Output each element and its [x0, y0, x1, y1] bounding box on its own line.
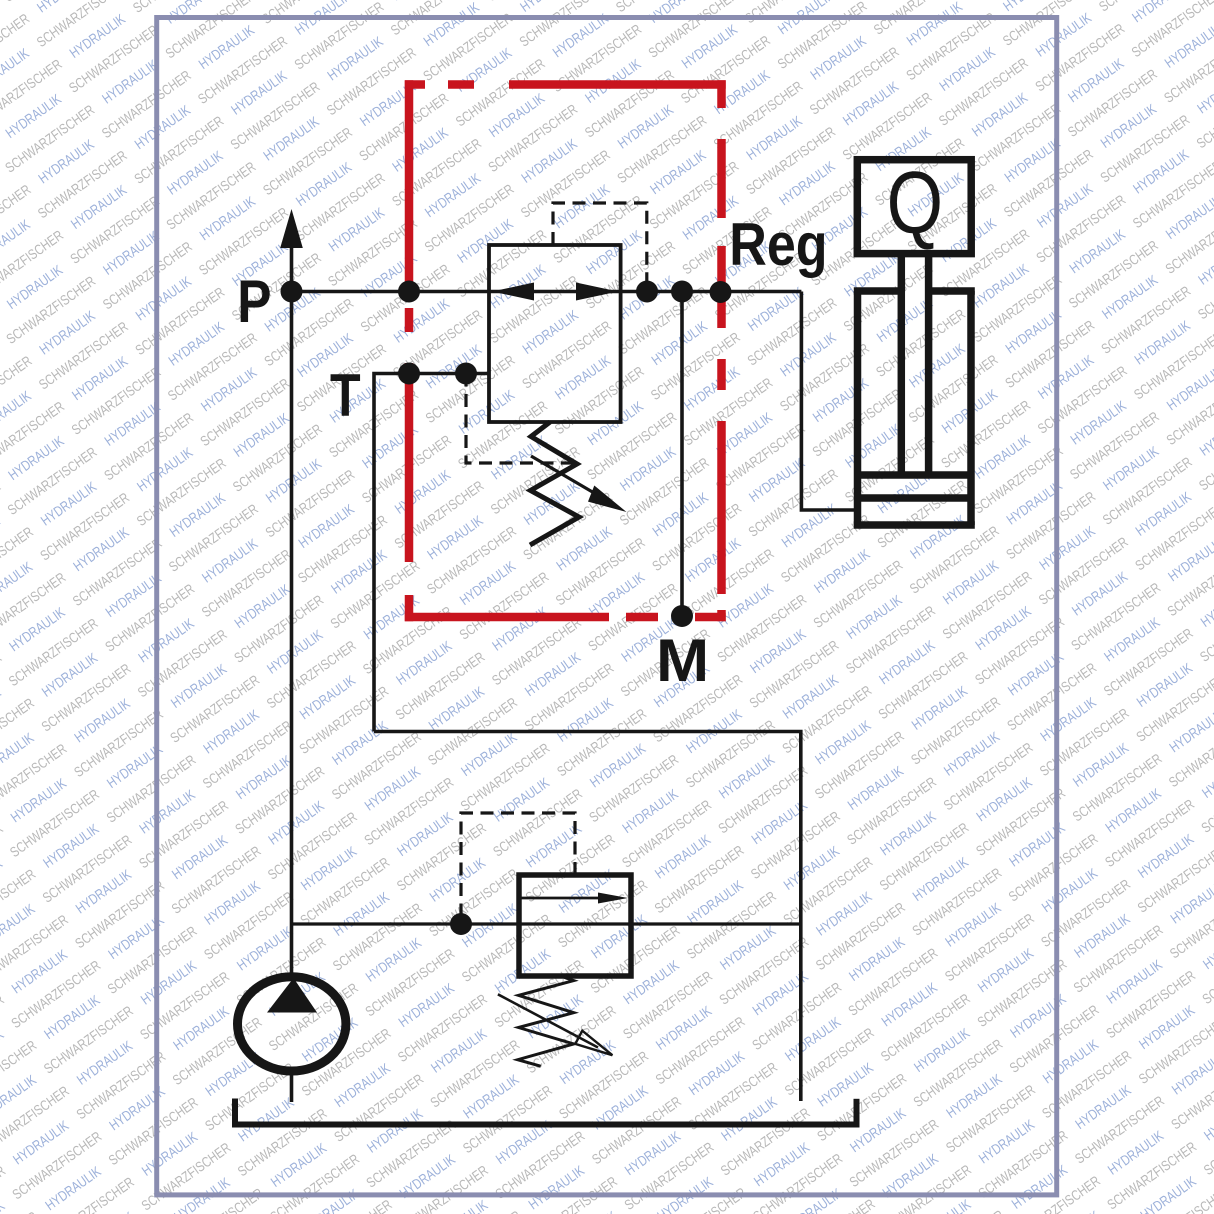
cylinder piston lines — [858, 471, 972, 479]
cylinder bottom — [854, 521, 975, 529]
flow meter Q box — [857, 160, 971, 254]
valve U1 left arrowhead — [492, 283, 534, 301]
red manifold boundary left edge — [405, 80, 414, 283]
valve U1 spring adjust arrow — [531, 456, 601, 497]
cylinder rod lines — [898, 254, 906, 475]
pump P1 triangle — [267, 978, 317, 1013]
relief valve V2 arrow — [521, 897, 604, 900]
wire T line — [374, 374, 489, 732]
relief valve V2 spring — [518, 976, 574, 1066]
valve U1 right arrowhead — [576, 283, 618, 301]
relief valve V2 spring adjust arrow — [498, 994, 598, 1047]
pilot line dashed left (T tap to spring) — [466, 374, 576, 464]
wire Reg to cylinder — [801, 292, 857, 511]
junction dot M — [671, 605, 693, 627]
wire main pressure line P to cylinder branch — [292, 290, 802, 294]
junction dot T pilot tap — [455, 363, 477, 385]
relief valve V2 body — [519, 875, 631, 976]
tank symbol — [232, 1122, 859, 1128]
junction dot P — [281, 281, 303, 303]
cylinder walls — [854, 291, 862, 525]
valve U1 flow regulator body — [489, 245, 621, 422]
wire M branch vertical — [680, 292, 684, 617]
pump P1 circle — [238, 977, 346, 1071]
wire P vertical (pump to P arrow) — [290, 240, 294, 973]
junction dot T on red boundary — [398, 363, 420, 385]
red manifold boundary right edge — [717, 80, 726, 108]
svg-text:P: P — [237, 268, 271, 335]
svg-text:Reg: Reg — [729, 211, 827, 278]
junction dot relief pilot — [450, 913, 472, 935]
border frame — [157, 18, 1057, 1195]
junction dot M branch — [671, 281, 693, 303]
arrow P up — [280, 209, 303, 248]
svg-text:Q: Q — [887, 153, 944, 252]
svg-text:T: T — [330, 362, 361, 429]
wire pump outlet to tank — [290, 1071, 294, 1102]
junction dot red crossing P line — [398, 281, 420, 303]
red manifold boundary top edge — [405, 80, 425, 89]
svg-text:M: M — [656, 627, 709, 694]
cylinder top edges — [854, 287, 902, 295]
pilot line dashed top (valve to main line) — [553, 203, 647, 292]
relief valve pilot dashed — [461, 813, 575, 924]
junction dot pilot tap right of valve — [636, 281, 658, 303]
red manifold boundary bottom edge — [405, 613, 609, 622]
wire relief valve line — [292, 922, 801, 925]
wire T return to tank — [374, 732, 801, 1102]
junction dot Reg port — [710, 281, 732, 303]
valve U1 spring — [530, 422, 579, 545]
